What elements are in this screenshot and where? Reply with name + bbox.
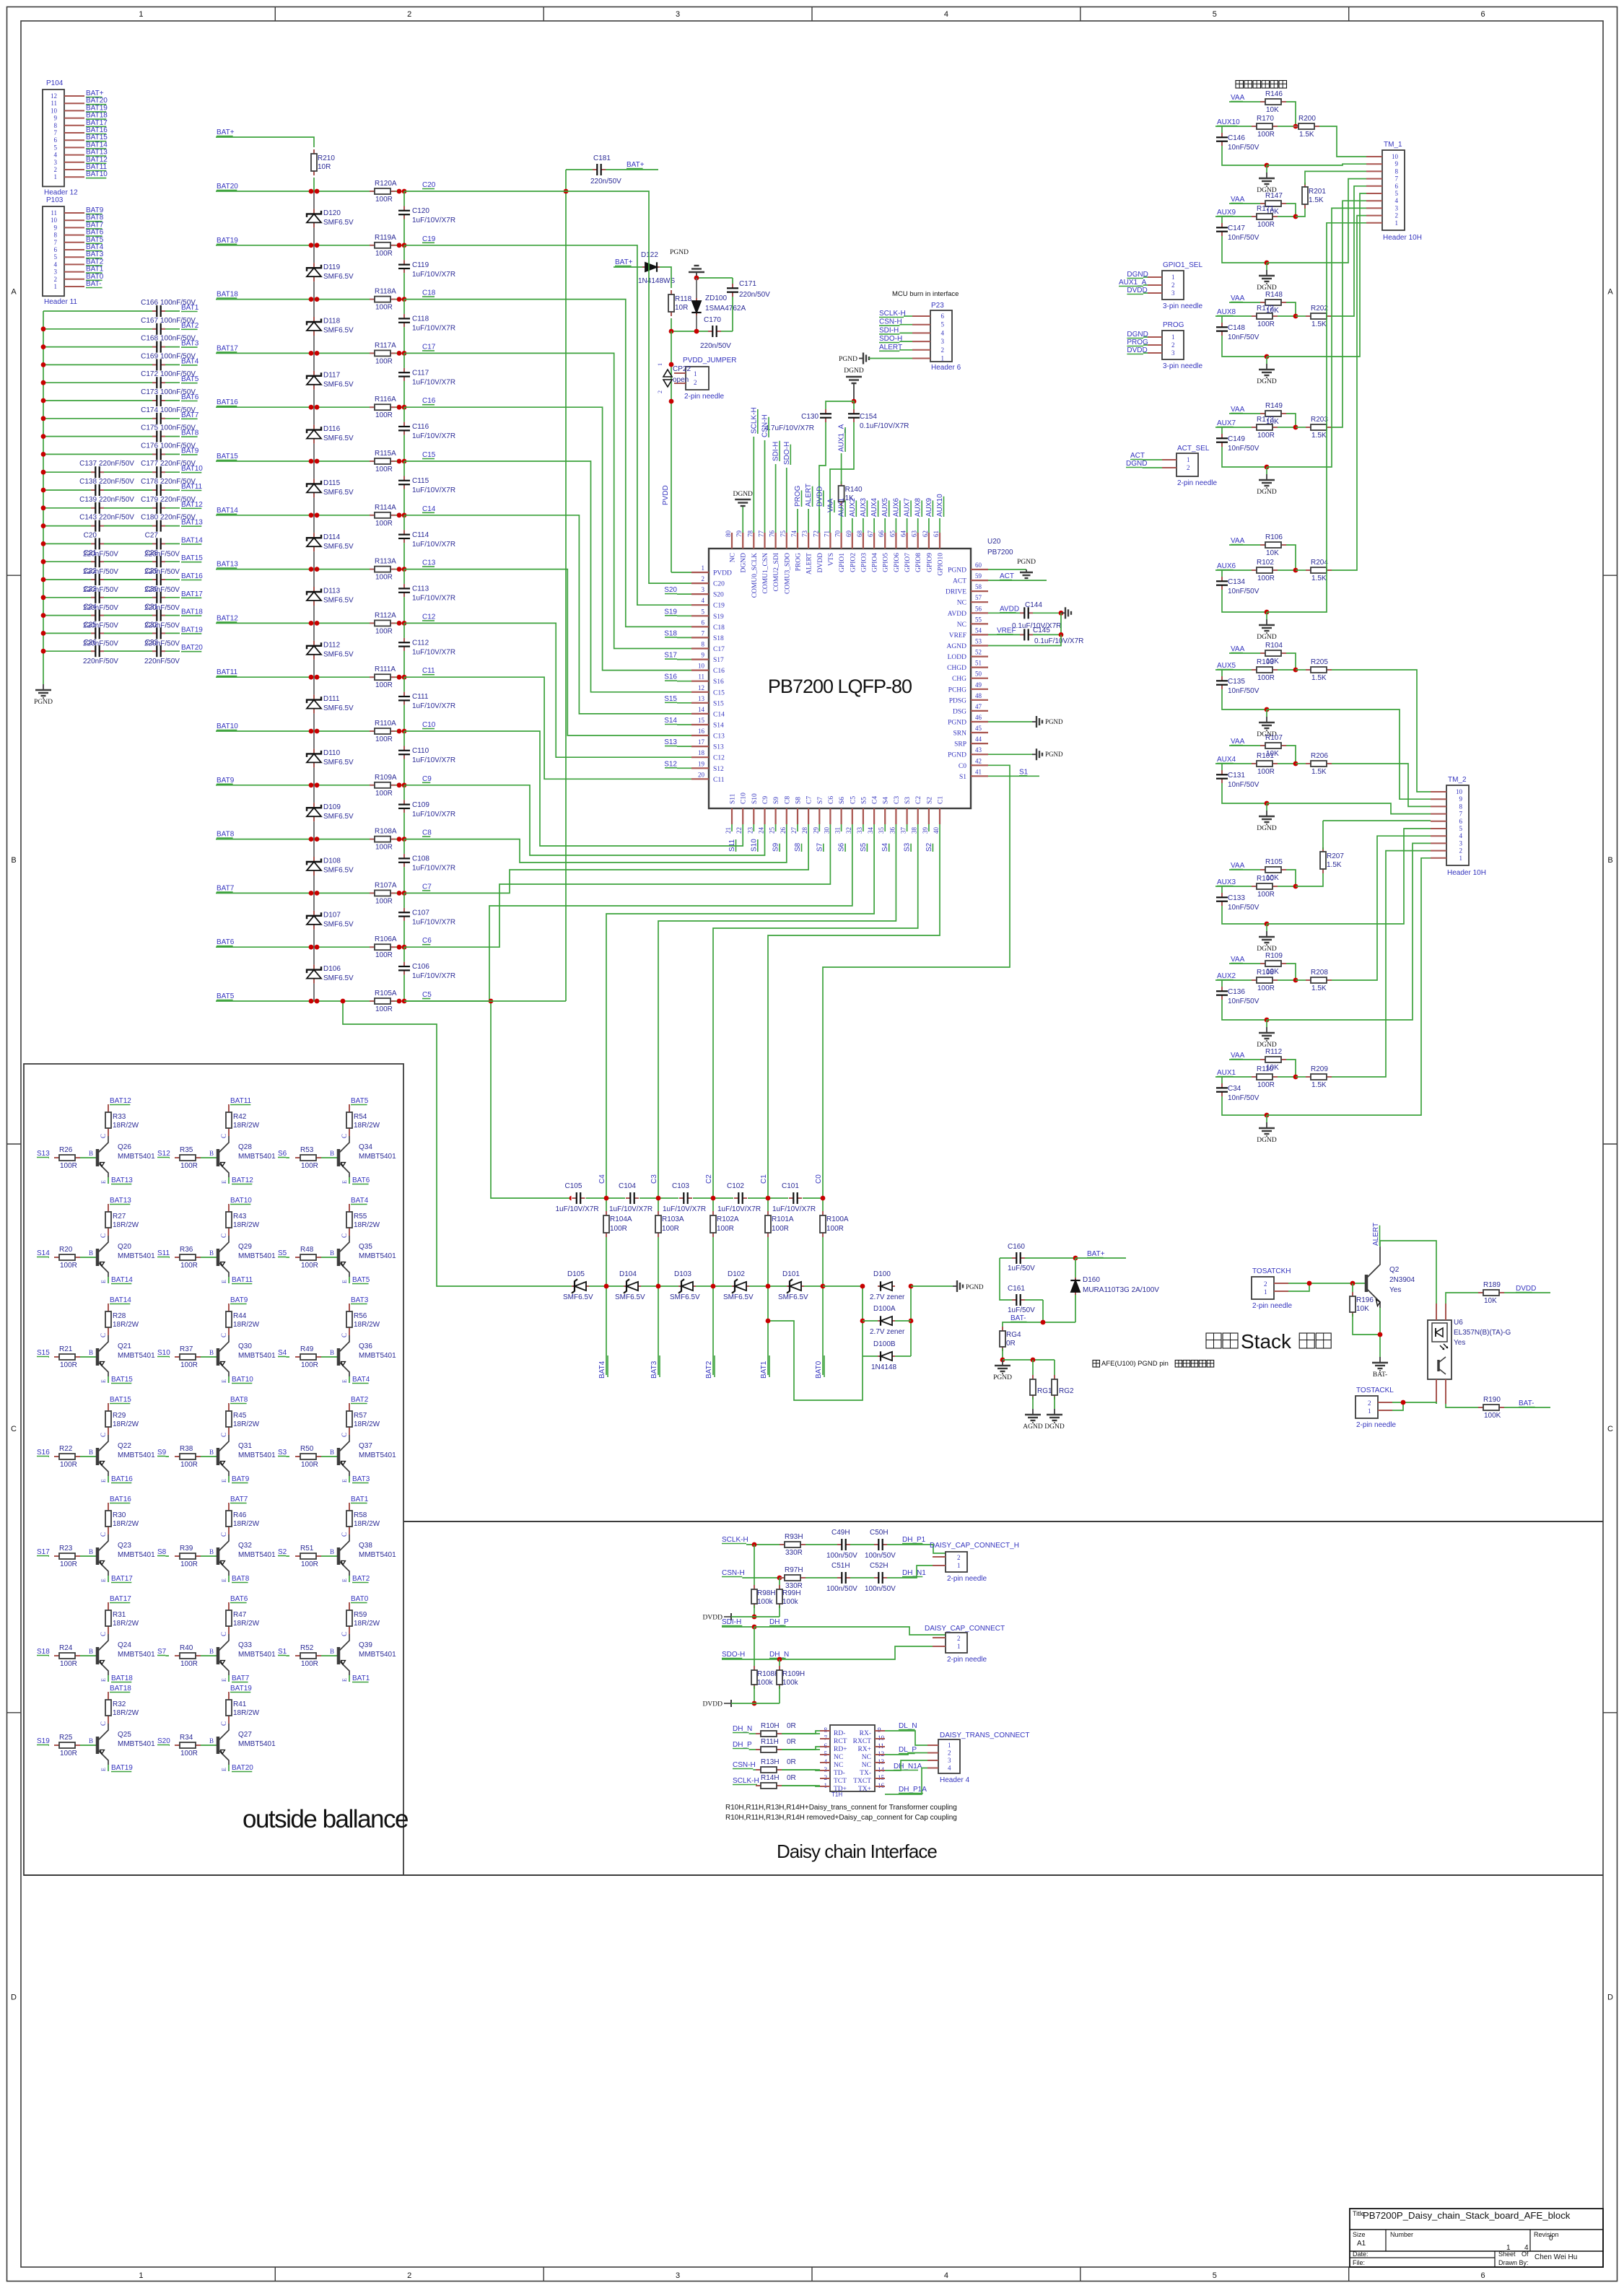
svg-text:BAT5: BAT5 <box>352 1276 370 1284</box>
svg-text:SDO-H: SDO-H <box>879 335 902 343</box>
svg-text:S8: S8 <box>795 797 803 804</box>
svg-text:E: E <box>221 1180 227 1184</box>
svg-text:Q31: Q31 <box>238 1442 252 1450</box>
svg-text:C8: C8 <box>784 796 791 804</box>
svg-text:78: 78 <box>746 530 754 538</box>
capacitor C26 <box>83 639 152 665</box>
node BAT8 ladder row <box>217 831 235 839</box>
node S4 bottom <box>881 824 889 852</box>
svg-text:S13: S13 <box>37 1150 50 1158</box>
diode D107 zener SMF6.5V <box>307 893 354 947</box>
svg-text:BAT-: BAT- <box>86 280 101 288</box>
resistor RG1 <box>1030 1375 1052 1400</box>
svg-text:100R: 100R <box>301 1461 318 1469</box>
svg-text:E: E <box>100 1579 107 1582</box>
svg-text:R21: R21 <box>59 1345 73 1353</box>
svg-text:C: C <box>341 1333 348 1337</box>
wire TOSATCKH to Q2 base <box>1288 1281 1365 1291</box>
diode D101 SMF6.5V <box>778 1270 808 1301</box>
node BAT14 ladder row <box>217 507 238 515</box>
svg-text:SMF6.5V: SMF6.5V <box>323 435 354 442</box>
text note daisy coupling 1 <box>725 1804 957 1812</box>
svg-text:R110: R110 <box>1257 1065 1274 1073</box>
wire row BAT20 <box>41 649 180 654</box>
svg-text:COMU1_CSN: COMU1_CSN <box>762 553 769 594</box>
svg-text:Number: Number <box>1390 2231 1413 2238</box>
svg-text:49: 49 <box>975 681 982 689</box>
node CSN-H at R13H <box>733 1761 756 1770</box>
node AUX10 at U20 <box>936 494 944 533</box>
resistor R148 10K <box>1260 291 1296 316</box>
wire BAT19 row <box>216 243 406 248</box>
svg-text:1uF/10V/X7R: 1uF/10V/X7R <box>412 432 455 440</box>
svg-text:P23: P23 <box>931 302 944 310</box>
wire U6 pins <box>1436 1304 1446 1404</box>
svg-text:GPIO8: GPIO8 <box>915 553 922 572</box>
connector TOSATCKH 2-pin needle <box>1252 1267 1292 1310</box>
svg-text:S10: S10 <box>157 1349 170 1357</box>
svg-text:100R: 100R <box>375 681 393 689</box>
svg-text:2: 2 <box>657 390 663 393</box>
svg-text:R24: R24 <box>59 1644 73 1652</box>
svg-text:1uF/10V/X7R: 1uF/10V/X7R <box>412 325 455 333</box>
diode D160 MURA110T3G <box>1070 1258 1159 1322</box>
svg-text:TXCT: TXCT <box>853 1778 871 1785</box>
svg-text:PB7200P_Daisy_chain_Stack_boar: PB7200P_Daisy_chain_Stack_board_AFE_bloc… <box>1363 2210 1571 2221</box>
ground AGND side at C144 <box>1061 607 1071 619</box>
node SDO-H at U20 <box>783 442 791 533</box>
svg-text:R111A: R111A <box>375 665 396 673</box>
node AUX2 <box>1215 972 1252 980</box>
svg-text:Q36: Q36 <box>359 1342 372 1350</box>
svg-text:3: 3 <box>676 2271 680 2280</box>
capacitor C102 1uF <box>717 1182 761 1213</box>
svg-text:C116: C116 <box>412 423 429 431</box>
resistor R209 1.5K <box>1296 1065 1332 1089</box>
svg-text:2N3904: 2N3904 <box>1389 1276 1415 1284</box>
svg-text:DSG: DSG <box>953 708 966 715</box>
node BAT10 at Q29 collector <box>230 1197 252 1205</box>
ground DGND AUX2 <box>1257 1018 1277 1049</box>
diode D111 zener SMF6.5V <box>307 677 354 731</box>
svg-text:R49: R49 <box>300 1345 314 1353</box>
svg-text:E: E <box>341 1280 348 1283</box>
svg-text:BAT17: BAT17 <box>181 590 203 598</box>
svg-text:C1: C1 <box>760 1174 768 1184</box>
svg-text:100R: 100R <box>1257 221 1275 229</box>
svg-text:BAT5: BAT5 <box>217 992 235 1000</box>
svg-text:C6: C6 <box>828 796 835 804</box>
left capacitor bank bus wire <box>43 311 44 684</box>
wire BAT8 row <box>216 837 406 842</box>
svg-text:GPIO9: GPIO9 <box>926 553 933 572</box>
svg-text:3: 3 <box>1171 289 1175 297</box>
svg-text:C171: C171 <box>739 280 756 288</box>
svg-text:9: 9 <box>54 115 58 122</box>
svg-text:6: 6 <box>54 136 58 144</box>
svg-text:C5: C5 <box>850 796 857 804</box>
wire left vertical bus <box>564 170 569 1001</box>
svg-text:1uF/10V/X7R: 1uF/10V/X7R <box>412 595 455 603</box>
node VAA AUX2 <box>1229 956 1261 964</box>
svg-text:100R: 100R <box>375 897 393 905</box>
diode D102 SMF6.5V <box>723 1270 754 1301</box>
svg-text:RX+: RX+ <box>857 1746 871 1753</box>
node BAT20 at Q27 emitter <box>229 1764 253 1772</box>
node BAT6 ladder row <box>217 938 235 946</box>
capacitor C133 10nF/50V <box>1216 886 1267 924</box>
svg-text:1uF/10V/X7R: 1uF/10V/X7R <box>412 972 455 980</box>
svg-text:S11: S11 <box>157 1249 170 1257</box>
node BAT3 at Q37 emitter <box>349 1475 370 1483</box>
svg-text:C15: C15 <box>713 689 725 697</box>
resistor RG2 <box>1052 1375 1074 1400</box>
svg-text:C10: C10 <box>741 792 748 804</box>
svg-text:BAT3: BAT3 <box>650 1361 658 1379</box>
svg-text:D119: D119 <box>323 263 341 271</box>
svg-text:C102: C102 <box>727 1182 744 1190</box>
svg-text:10: 10 <box>1392 153 1399 160</box>
transistor Q31 MMBT5401 <box>218 1433 276 1483</box>
svg-text:DVDD: DVDD <box>817 553 824 573</box>
resistor R207 1.5K vertical <box>1296 821 1344 886</box>
svg-text:10R: 10R <box>675 304 688 312</box>
svg-text:B: B <box>89 1150 93 1157</box>
svg-text:6: 6 <box>941 313 945 320</box>
svg-text:8: 8 <box>54 122 58 129</box>
svg-text:DH_P1: DH_P1 <box>902 1536 926 1544</box>
capacitor C31 <box>144 603 180 630</box>
svg-text:100R: 100R <box>180 1750 198 1758</box>
svg-text:100k: 100k <box>782 1598 799 1606</box>
svg-text:AUX5: AUX5 <box>1217 662 1236 670</box>
svg-text:E: E <box>341 1678 348 1682</box>
node AUX2 at U20 <box>849 497 857 533</box>
svg-text:10R: 10R <box>318 163 331 171</box>
svg-text:34: 34 <box>867 827 874 834</box>
svg-text:R189: R189 <box>1483 1281 1501 1289</box>
svg-text:R37: R37 <box>180 1345 193 1353</box>
svg-text:MMBT5401: MMBT5401 <box>359 1352 396 1360</box>
svg-text:MMBT5401: MMBT5401 <box>118 1451 155 1459</box>
wire C18 net <box>404 300 691 627</box>
svg-text:4: 4 <box>1459 832 1463 839</box>
svg-text:MCU burn in interface: MCU burn in interface <box>892 290 959 298</box>
diode D112 zener SMF6.5V <box>307 623 354 677</box>
svg-text:C179: C179 <box>141 496 158 504</box>
node AUX4 at U20 <box>870 497 878 533</box>
svg-text:1.5K: 1.5K <box>1311 320 1327 328</box>
svg-text:BAT9: BAT9 <box>230 1296 248 1304</box>
svg-text:SMF6.5V: SMF6.5V <box>323 759 354 767</box>
svg-text:BAT16: BAT16 <box>181 572 203 580</box>
svg-text:R202: R202 <box>1311 305 1328 313</box>
svg-text:10nF/50V: 10nF/50V <box>1228 1094 1260 1102</box>
svg-text:75: 75 <box>780 530 787 538</box>
svg-text:B: B <box>209 1150 214 1157</box>
svg-text:B: B <box>209 1737 214 1745</box>
svg-text:R107A: R107A <box>375 881 397 889</box>
svg-text:R110A: R110A <box>375 720 396 728</box>
diode D110 zener SMF6.5V <box>307 731 354 785</box>
svg-text:R210: R210 <box>318 154 335 162</box>
transistor Q35 MMBT5401 <box>339 1233 396 1283</box>
svg-text:CHG: CHG <box>952 676 966 683</box>
transistor Q2 2N3904 <box>1366 1246 1415 1308</box>
svg-text:S12: S12 <box>664 760 677 768</box>
svg-text:MMBT5401: MMBT5401 <box>118 1153 155 1161</box>
svg-text:B: B <box>89 1648 93 1655</box>
svg-text:Header 4: Header 4 <box>940 1776 970 1784</box>
capacitor C113 <box>398 569 455 624</box>
svg-text:1uF/10V/X7R: 1uF/10V/X7R <box>412 541 455 549</box>
svg-text:4: 4 <box>54 261 58 268</box>
svg-text:C7: C7 <box>422 883 432 891</box>
node S17 <box>664 652 691 660</box>
svg-text:R112: R112 <box>1265 1048 1283 1056</box>
svg-text:BAT11: BAT11 <box>232 1276 253 1284</box>
resistor R52 100R <box>286 1644 337 1668</box>
svg-text:R55: R55 <box>354 1213 367 1221</box>
svg-text:100nF/50V: 100nF/50V <box>160 335 196 343</box>
svg-text:Chen Wei Hu: Chen Wei Hu <box>1534 2253 1577 2261</box>
capacitor C169 <box>141 352 196 370</box>
svg-text:S9: S9 <box>772 842 780 852</box>
capacitor C23 <box>83 585 152 612</box>
svg-text:AFE(U100) PGND pin: AFE(U100) PGND pin <box>1101 1360 1169 1368</box>
svg-text:2: 2 <box>1187 464 1190 471</box>
svg-text:S15: S15 <box>664 695 677 703</box>
svg-text:AUX4: AUX4 <box>1217 756 1236 764</box>
transistor Q37 MMBT5401 <box>339 1433 396 1483</box>
wire AUX8 to TM_1 pin6 <box>1332 186 1366 316</box>
svg-text:1: 1 <box>957 1643 961 1650</box>
svg-text:SCLK-H: SCLK-H <box>750 407 758 434</box>
svg-text:100R: 100R <box>772 1225 789 1233</box>
svg-text:C111: C111 <box>412 693 429 701</box>
svg-text:C: C <box>220 1632 227 1636</box>
resistor R204 1.5K <box>1296 559 1332 582</box>
svg-text:100R: 100R <box>180 1660 198 1668</box>
svg-text:C149: C149 <box>1228 435 1245 443</box>
connector TM_2 Header 10H <box>1431 776 1486 877</box>
svg-text:100R: 100R <box>301 1162 318 1170</box>
node BAT17 at Q23 emitter <box>108 1575 133 1583</box>
svg-text:C49H: C49H <box>831 1529 850 1537</box>
svg-text:56: 56 <box>975 605 982 612</box>
svg-text:C180: C180 <box>141 514 158 522</box>
svg-text:30: 30 <box>823 827 830 834</box>
svg-text:100R: 100R <box>60 1560 77 1568</box>
svg-text:18R/2W: 18R/2W <box>233 1321 260 1329</box>
resistor R205 1.5K <box>1296 658 1332 682</box>
ground PGND at P23 pin1 <box>839 353 912 364</box>
node DGND at PROG <box>1127 331 1148 339</box>
svg-text:R23: R23 <box>59 1545 73 1553</box>
svg-text:R204: R204 <box>1311 559 1328 567</box>
node DVDD at GPIO1_SEL <box>1127 287 1148 294</box>
diode D106 zener SMF6.5V <box>307 947 354 1001</box>
resistor R189 10K <box>1446 1281 1504 1305</box>
svg-text:C11: C11 <box>713 777 725 784</box>
svg-text:60: 60 <box>975 562 982 569</box>
svg-text:D118: D118 <box>323 318 341 326</box>
svg-text:B: B <box>330 1150 334 1157</box>
resistor R14H 0R <box>756 1774 820 1789</box>
svg-text:6: 6 <box>1459 818 1463 825</box>
wire C11 net <box>404 677 691 779</box>
svg-text:100R: 100R <box>662 1225 679 1233</box>
svg-text:PDSG: PDSG <box>949 697 966 704</box>
svg-text:S1: S1 <box>1019 768 1029 776</box>
svg-text:C: C <box>100 1632 107 1636</box>
svg-text:1: 1 <box>1395 219 1399 227</box>
diode D104 SMF6.5V <box>615 1270 645 1301</box>
svg-text:S18: S18 <box>713 635 724 642</box>
svg-text:C32: C32 <box>145 621 159 629</box>
svg-text:100nF/50V: 100nF/50V <box>160 352 196 360</box>
node DGND at GPIO1_SEL <box>1127 271 1148 279</box>
svg-text:C139: C139 <box>79 496 97 504</box>
outside ballance section box <box>24 1064 408 1875</box>
svg-text:VAA: VAA <box>1231 406 1245 414</box>
svg-text:B: B <box>330 1648 334 1655</box>
wire row BAT16 <box>41 577 180 582</box>
svg-text:1.5K: 1.5K <box>1311 674 1327 682</box>
svg-text:S1: S1 <box>278 1648 287 1656</box>
svg-text:C15: C15 <box>422 451 436 459</box>
svg-text:Date:: Date: <box>1353 2250 1368 2258</box>
wire AUX6 gnd to TM_1 pin1 <box>1267 223 1366 612</box>
svg-text:BAT5: BAT5 <box>351 1097 369 1105</box>
resistor R23 100R <box>48 1545 96 1568</box>
wire PVDD down <box>662 331 691 572</box>
svg-text:C: C <box>220 1721 227 1726</box>
svg-text:72: 72 <box>812 530 819 537</box>
ground DGND AUX5 <box>1257 707 1277 738</box>
svg-text:18R/2W: 18R/2W <box>354 1620 380 1628</box>
svg-text:B: B <box>330 1449 334 1456</box>
wire C10 net <box>404 731 743 846</box>
svg-text:2: 2 <box>1459 847 1463 855</box>
node BAT4 column bottom <box>598 1355 608 1379</box>
svg-text:1: 1 <box>1264 1288 1267 1296</box>
svg-text:C17: C17 <box>422 343 436 351</box>
node BAT10 ladder row <box>217 722 238 730</box>
svg-text:MMBT5401: MMBT5401 <box>359 1252 396 1260</box>
svg-text:100R: 100R <box>180 1361 198 1369</box>
svg-text:C105: C105 <box>565 1182 582 1190</box>
svg-text:C147: C147 <box>1228 224 1245 232</box>
wire BAT9 row <box>216 782 406 787</box>
svg-text:C8: C8 <box>422 829 432 837</box>
svg-text:C1: C1 <box>938 796 945 804</box>
svg-text:2: 2 <box>1368 1400 1371 1407</box>
ground DGND above C154 <box>844 367 864 401</box>
node AUX5 at U20 <box>881 497 889 533</box>
svg-text:BAT1: BAT1 <box>760 1361 768 1379</box>
svg-text:19: 19 <box>698 760 705 767</box>
svg-text:BAT12: BAT12 <box>110 1097 131 1105</box>
svg-text:100R: 100R <box>60 1262 77 1270</box>
resistor R120A <box>370 180 397 204</box>
svg-text:D105: D105 <box>567 1270 585 1278</box>
svg-text:D115: D115 <box>323 479 341 487</box>
svg-text:C17: C17 <box>713 646 725 653</box>
svg-text:R203: R203 <box>1311 416 1328 424</box>
resistor R105A <box>370 990 397 1013</box>
resistor R117A <box>370 341 396 365</box>
node S15 <box>664 695 691 703</box>
svg-text:BAT18: BAT18 <box>111 1674 133 1682</box>
svg-text:BAT10: BAT10 <box>230 1197 252 1205</box>
svg-text:R171: R171 <box>1257 205 1274 213</box>
svg-text:R109: R109 <box>1265 952 1283 960</box>
svg-text:A: A <box>11 287 17 296</box>
resistor R108A <box>370 828 397 852</box>
svg-text:13: 13 <box>698 695 705 702</box>
svg-text:E: E <box>221 1579 227 1582</box>
svg-text:1SMA4762A: 1SMA4762A <box>705 305 746 313</box>
svg-text:S7: S7 <box>816 842 824 852</box>
capacitor C27 <box>144 531 180 558</box>
svg-text:100R: 100R <box>1257 320 1275 328</box>
svg-text:R58: R58 <box>354 1511 367 1519</box>
svg-text:SMF6.5V: SMF6.5V <box>323 219 354 227</box>
resistor R54 18R/2W <box>346 1104 380 1136</box>
svg-text:R44: R44 <box>233 1312 247 1320</box>
svg-text:PGND: PGND <box>1045 751 1063 758</box>
svg-text:10nF/50V: 10nF/50V <box>1228 588 1260 595</box>
svg-text:CP22: CP22 <box>673 365 691 373</box>
svg-text:C: C <box>341 1532 348 1537</box>
ground PGND at pin60 <box>988 559 1036 578</box>
svg-text:7: 7 <box>1395 175 1399 183</box>
node C0 column <box>815 1158 823 1184</box>
svg-text:DGND: DGND <box>1126 460 1147 468</box>
svg-text:Yes: Yes <box>1389 1286 1401 1294</box>
svg-text:B: B <box>89 1349 93 1356</box>
wire BAT20 row <box>216 189 406 194</box>
svg-text:D106: D106 <box>323 965 341 973</box>
svg-text:42: 42 <box>975 757 982 764</box>
svg-text:TCT: TCT <box>834 1778 847 1785</box>
wire BAT18 row <box>216 297 406 302</box>
node S1 at pin41 <box>988 768 1039 776</box>
wire AUX5 to TM_2 pin10 <box>1332 670 1431 792</box>
resistor R29 18R/2W <box>105 1403 139 1435</box>
svg-text:D100A: D100A <box>873 1305 896 1313</box>
svg-text:R40: R40 <box>180 1644 193 1652</box>
node AUX1 at U20 <box>838 497 846 533</box>
svg-text:BAT13: BAT13 <box>217 561 238 569</box>
svg-text:R101: R101 <box>1257 752 1274 760</box>
svg-text:SDO-H: SDO-H <box>783 442 791 465</box>
wire row BAT4 <box>41 362 180 367</box>
svg-text:4: 4 <box>941 329 945 336</box>
diode D100B 1N4148 <box>863 1340 911 1371</box>
svg-text:1: 1 <box>657 363 663 366</box>
node BAT10 <box>181 465 203 473</box>
resistor R30 18R/2W <box>105 1503 139 1534</box>
node AUX9 at U20 <box>925 497 933 533</box>
svg-text:100n/50V: 100n/50V <box>865 1552 896 1560</box>
svg-text:45: 45 <box>975 725 982 732</box>
connector P103 <box>43 196 104 306</box>
node AUX8 <box>1215 308 1252 316</box>
svg-text:10K: 10K <box>1484 1297 1497 1305</box>
svg-text:A: A <box>1607 287 1613 296</box>
